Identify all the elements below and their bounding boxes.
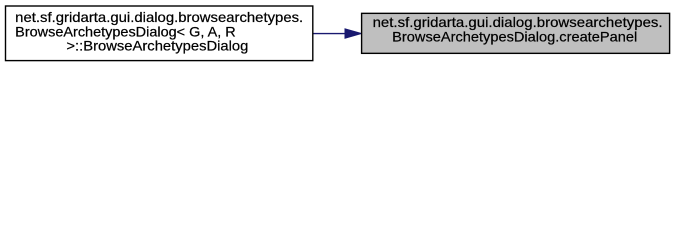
svg-text:net.sf.gridarta.gui.dialog.bro: net.sf.gridarta.gui.dialog.browsearchety… [15, 10, 303, 25]
node: current function createPanel (grey highlighted box) [362, 13, 670, 53]
wire: call edge shaft [314, 33, 347, 35]
call edge arrowhead [345, 29, 361, 38]
node: caller BrowseArchetypesDialog constructor (white box) [6, 6, 313, 61]
svg-text:net.sf.gridarta.gui.dialog.bro: net.sf.gridarta.gui.dialog.browsearchety… [373, 15, 663, 30]
svg-text:>::BrowseArchetypesDialog: >::BrowseArchetypesDialog [66, 39, 248, 54]
svg-text:BrowseArchetypesDialog< G, A,: BrowseArchetypesDialog< G, A, R [15, 24, 236, 39]
svg-text:BrowseArchetypesDialog.createP: BrowseArchetypesDialog.createPanel [392, 30, 637, 45]
